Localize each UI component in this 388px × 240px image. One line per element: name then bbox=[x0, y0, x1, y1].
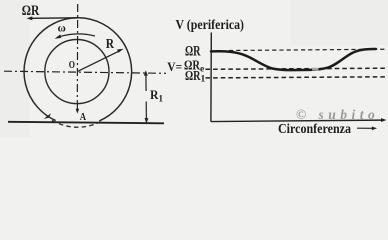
x axis with arrowhead bbox=[211, 120, 384, 122]
rotation arrowhead on lower-left periphery bbox=[44, 113, 51, 119]
small arrow after Circonferenza bbox=[357, 127, 374, 129]
horizontal centerline (dash-dot) bbox=[4, 71, 166, 73]
svg-text:© subito: © subito bbox=[296, 107, 379, 122]
bottom dashed line at Omega R1 level bbox=[206, 77, 388, 78]
R1 dimension line with arrowheads bbox=[145, 73, 147, 92]
outer circle (tire, flattened at contact) bbox=[24, 18, 132, 121]
svg-text:A: A bbox=[80, 111, 86, 123]
middle dashed line at Omega Re level bbox=[206, 68, 388, 69]
velocity curve bbox=[211, 49, 376, 70]
svg-text:Circonferenza: Circonferenza bbox=[278, 121, 351, 136]
radius arrow R bbox=[77, 50, 120, 71]
svg-text:ω: ω bbox=[58, 20, 66, 34]
svg-text:V=: V= bbox=[167, 59, 182, 74]
top dashed line at Omega R level bbox=[229, 49, 387, 50]
light marker on curve bbox=[312, 67, 319, 70]
svg-text:ΩR: ΩR bbox=[22, 3, 40, 19]
svg-text:O: O bbox=[69, 60, 75, 71]
V axis bbox=[210, 33, 212, 122]
top tangential velocity arrow (Omega R) bbox=[30, 17, 78, 20]
svg-text:R: R bbox=[106, 36, 115, 51]
svg-text:ΩR: ΩR bbox=[185, 44, 201, 60]
ground line bbox=[8, 122, 164, 124]
svg-text:V (periferica): V (periferica) bbox=[176, 17, 245, 32]
arrow to contact point A bbox=[76, 104, 78, 111]
inner circle (rim) bbox=[45, 40, 109, 104]
dashed arc (undeformed circle below ground) bbox=[52, 120, 102, 127]
omega rotation arrow arc bbox=[58, 34, 96, 37]
vertical centerline (dash-dot) bbox=[76, 4, 78, 104]
